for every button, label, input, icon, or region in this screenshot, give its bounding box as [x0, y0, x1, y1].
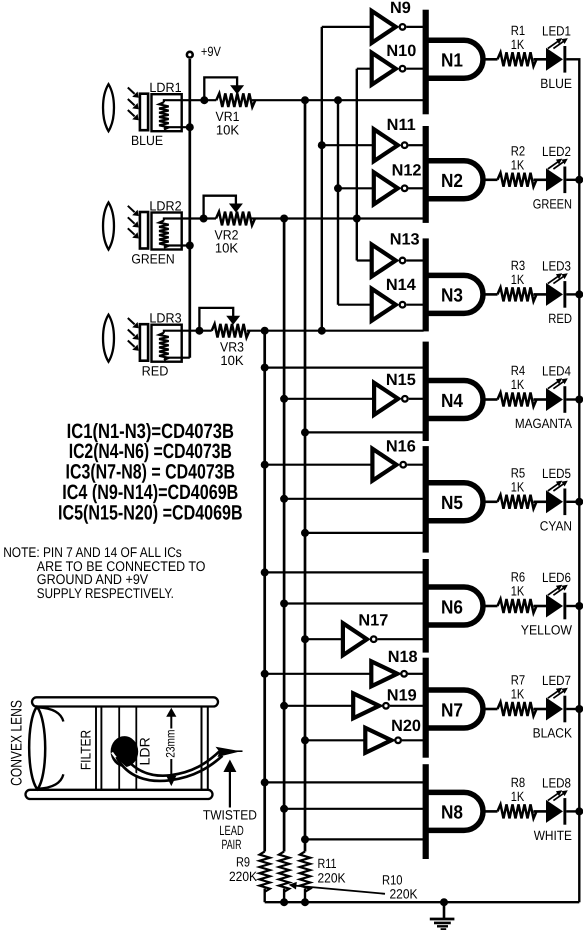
resistor R5 1K	[498, 495, 537, 509]
svg-text:N13: N13	[390, 231, 420, 249]
inverter N19	[353, 693, 379, 718]
wire: R7 to LED7	[534, 708, 547, 711]
svg-text:N18: N18	[388, 648, 418, 666]
svg-text:R4: R4	[511, 363, 526, 378]
LED8	[546, 800, 563, 823]
wire: N10 output	[406, 68, 423, 70]
bus: NOT-RED feed (N9/N11)	[321, 27, 323, 331]
potentiometer VR2 10K	[216, 212, 255, 226]
wire: LED7 to right rail	[566, 708, 579, 710]
svg-text:1K: 1K	[511, 584, 525, 599]
wire: N4 input from BLUE bus	[305, 431, 424, 433]
wire: LED6 to right rail	[566, 605, 579, 607]
junction: N12 input on bus	[334, 184, 342, 192]
junction: N5 input from GREEN bus	[280, 495, 288, 503]
svg-text:N17: N17	[358, 612, 388, 630]
bus: RED sense (VR3) vertical	[263, 331, 266, 852]
wire: LED4 to right rail	[566, 398, 579, 400]
wire: N6 output to R6	[483, 605, 498, 608]
junction: N18 input on bus	[261, 670, 269, 678]
inverter N14	[372, 289, 396, 321]
lens 1	[103, 84, 114, 131]
cable tip	[216, 747, 241, 757]
VR3 wiper arrowhead	[226, 316, 240, 325]
wire: R2 to LED2	[534, 179, 547, 182]
tube right end cap	[201, 707, 203, 790]
ground	[443, 902, 446, 919]
AND gate N3 input bar	[423, 238, 429, 331]
junction: VR3 loop	[195, 327, 203, 335]
svg-text:1K: 1K	[511, 789, 525, 804]
VR1 wiper loop	[204, 77, 237, 100]
svg-text:R3: R3	[511, 258, 525, 273]
svg-text:1K: 1K	[511, 479, 525, 494]
LDR2 element	[159, 221, 169, 248]
wire: N4 input from RED bus	[265, 367, 424, 369]
junction: VR3 wire / N9-N11 bus	[318, 327, 326, 335]
bus: BLUE sense (VR1) vertical	[304, 100, 307, 851]
svg-text:N10: N10	[386, 42, 416, 60]
lens bottom-right arc	[38, 774, 63, 789]
junction: LED3/right rail	[575, 290, 583, 298]
svg-text:220K: 220K	[229, 869, 257, 884]
junction: LED2/right rail	[575, 176, 583, 184]
wire: VR3 to N3 gate	[247, 330, 424, 332]
twisted-pair pointer arrow	[229, 772, 231, 808]
junction: LDR1 return on +9V rail	[186, 123, 194, 131]
wire: LED5 to right rail	[566, 501, 579, 503]
wire: N13 output	[406, 259, 423, 261]
wire: N2 output to R2	[483, 179, 498, 182]
LED6	[546, 595, 563, 618]
resistor R6 1K	[498, 599, 537, 613]
AND gate N1 input bar	[423, 10, 429, 115]
junction: LED7/right rail	[575, 705, 583, 713]
junction: VR2 loop	[200, 215, 208, 223]
wire: LED1 to right rail corner	[566, 58, 580, 60]
svg-text:CYAN: CYAN	[540, 518, 572, 533]
wire: LDR3 top lead	[164, 331, 212, 333]
AND gate N5 input bar	[423, 446, 429, 552]
svg-text:FILTER: FILTER	[78, 730, 94, 770]
resistor R11 220K	[300, 852, 310, 892]
junction: VR2 wire / GREEN bus	[280, 215, 288, 223]
svg-text:23mm: 23mm	[163, 730, 177, 758]
junction: VR3 wire / RED bus	[261, 327, 269, 335]
svg-text:LED6: LED6	[542, 570, 571, 585]
AND gate N8 body	[427, 792, 483, 830]
wire: R9 to ground rail	[264, 889, 266, 903]
wire: N16 input	[265, 464, 375, 466]
light arrows into LDR3	[128, 318, 135, 324]
wire: bottom ground rail	[265, 901, 580, 903]
svg-text:N8: N8	[441, 803, 463, 824]
svg-text:LED7: LED7	[542, 673, 571, 688]
svg-text:N4: N4	[441, 391, 463, 412]
junction: VR1 wire / BLUE bus	[301, 96, 309, 104]
wire: N20 output	[402, 739, 424, 741]
wire: N17 input	[305, 638, 345, 640]
junction: N8 input from RED bus	[261, 778, 269, 786]
junction: N4 input from BLUE bus	[301, 428, 309, 436]
svg-text:RED: RED	[548, 311, 572, 326]
wire: N16 output	[407, 464, 424, 466]
LDR body	[111, 736, 139, 767]
AND gate N2 body	[427, 161, 483, 199]
svg-text:LDR2: LDR2	[149, 199, 181, 214]
wire: N19 input	[284, 705, 355, 707]
wire: N8 input from BLUE bus	[305, 838, 424, 840]
LDR2 box	[152, 213, 182, 250]
wire: N18 output	[408, 673, 424, 675]
svg-text:10K: 10K	[215, 241, 238, 256]
junction: LDR2 return on +9V rail	[186, 242, 194, 250]
svg-text:N1: N1	[441, 51, 463, 72]
wire: N15 input	[284, 398, 376, 400]
wire: N14 output	[406, 304, 423, 306]
wire: N12 input	[338, 187, 376, 189]
LED2	[546, 168, 563, 191]
svg-text:LED3: LED3	[542, 258, 571, 273]
svg-text:LED4: LED4	[542, 364, 571, 379]
VR1 wiper arrowhead	[230, 85, 244, 94]
LDR1 element	[159, 102, 169, 129]
VR2 wiper loop	[204, 196, 236, 219]
inverter N11	[374, 129, 398, 161]
wire: R10 to ground rail	[283, 889, 285, 903]
filter plate 2	[140, 212, 148, 249]
svg-text:BLACK: BLACK	[533, 726, 572, 741]
junction: R11 / ground rail	[301, 898, 309, 906]
junction: VR1 loop	[200, 96, 208, 104]
svg-text:R2: R2	[511, 143, 525, 158]
svg-text:WHITE: WHITE	[534, 828, 572, 843]
light arrows into LDR2	[128, 206, 135, 212]
svg-text:MAGANTA: MAGANTA	[515, 416, 572, 431]
AND gate N4 body	[427, 381, 483, 419]
LDR3 element	[159, 333, 169, 360]
svg-text:R6: R6	[511, 570, 525, 585]
potentiometer VR3 10K	[212, 324, 250, 338]
svg-text:N5: N5	[441, 493, 463, 514]
wire: N14 input	[338, 304, 374, 306]
junction: N4 input from RED bus	[261, 364, 269, 372]
svg-text:R5: R5	[511, 465, 525, 480]
wire: LED8 to right rail	[566, 810, 579, 812]
svg-text:IC5(N15-N20) =CD4069B: IC5(N15-N20) =CD4069B	[58, 501, 243, 524]
wire: N19 output	[390, 705, 424, 707]
resistor R7 1K	[498, 702, 537, 716]
svg-text:1K: 1K	[511, 157, 525, 172]
wire: LDR3 bottom lead to +9V rail	[164, 357, 190, 359]
wire: N6 input from RED bus	[265, 571, 424, 573]
svg-text:R11: R11	[318, 856, 337, 871]
inverter N17	[343, 623, 367, 655]
junction: N11 input on bus	[318, 141, 326, 149]
VR2 wiper arrowhead	[229, 204, 243, 213]
svg-text:RED: RED	[142, 364, 169, 379]
svg-text:N12: N12	[392, 161, 422, 179]
wire: N9 input	[322, 26, 374, 28]
bus: GREEN sense (VR2) vertical	[283, 219, 286, 852]
svg-text:10K: 10K	[216, 122, 239, 137]
wire: N11 output	[409, 144, 424, 146]
lens top-right arc	[38, 707, 63, 721]
LED3	[546, 283, 563, 306]
svg-text:GREEN: GREEN	[131, 252, 174, 267]
inverter N16	[372, 449, 396, 481]
svg-text:PAIR: PAIR	[222, 837, 242, 852]
junction: ground tap	[440, 898, 448, 906]
inverter N12	[374, 172, 398, 204]
inverter N10	[372, 53, 396, 85]
svg-text:N19: N19	[387, 687, 417, 705]
junction: LED4/right rail	[575, 396, 583, 404]
svg-text:N11: N11	[387, 116, 416, 134]
wire: right LED return rail	[578, 59, 580, 902]
junction: N20 input on bus	[301, 736, 309, 744]
wire: N13 input	[357, 259, 374, 261]
inverter N9	[372, 11, 396, 43]
svg-text:N6: N6	[441, 597, 463, 618]
wire: N5 input from BLUE bus	[305, 532, 424, 534]
wire: N5 output to R5	[483, 500, 498, 503]
svg-text:LED5: LED5	[542, 466, 571, 481]
svg-text:R9: R9	[236, 855, 250, 870]
svg-text:N3: N3	[441, 286, 463, 307]
junction: LED8/right rail	[575, 807, 583, 815]
svg-text:R10: R10	[382, 873, 403, 888]
junction: VR2 wire / N10-N13 bus	[353, 215, 361, 223]
LED7	[546, 698, 563, 721]
svg-text:LEAD: LEAD	[219, 823, 244, 838]
AND gate N6 body	[427, 587, 483, 625]
svg-text:TWISTED: TWISTED	[203, 808, 257, 823]
svg-text:1K: 1K	[511, 377, 525, 392]
wire: N1 output to R1	[483, 58, 498, 61]
bus: NOT-BLUE feed (N12/N14)	[337, 100, 339, 305]
LDR mount plates	[118, 706, 120, 789]
potentiometer VR1 10K	[216, 93, 255, 107]
svg-text:N16: N16	[386, 437, 416, 455]
junction: N16 input on bus	[261, 461, 269, 469]
wire: N11 input	[322, 144, 376, 146]
wire: N8 output to R8	[483, 810, 498, 813]
svg-text:1K: 1K	[511, 37, 525, 52]
junction: N8 input from GREEN bus	[280, 805, 288, 813]
svg-text:LED2: LED2	[542, 144, 571, 159]
svg-text:BLUE: BLUE	[540, 76, 572, 91]
R10 pointer arrow	[295, 886, 385, 894]
inverter N15	[374, 383, 398, 415]
svg-text:GREEN: GREEN	[533, 196, 572, 211]
junction: N17 input on bus	[301, 635, 309, 643]
svg-text:220K: 220K	[390, 887, 418, 902]
wire: N4 output to R4	[483, 398, 498, 401]
inverter N13	[372, 245, 396, 277]
resistor R10 220K	[279, 852, 289, 892]
junction: LED6/right rail	[575, 602, 583, 610]
svg-text:R7: R7	[511, 673, 525, 688]
svg-text:SUPPLY RESPECTIVELY.: SUPPLY RESPECTIVELY.	[37, 585, 174, 601]
svg-text:LDR3: LDR3	[149, 311, 181, 326]
resistor R9 220K	[260, 852, 270, 892]
junction: N6 input from RED bus	[261, 568, 269, 576]
resistor R8 1K	[498, 804, 537, 818]
svg-text:N20: N20	[391, 717, 421, 735]
svg-text:10K: 10K	[220, 353, 243, 368]
resistor R4 1K	[498, 393, 537, 407]
AND gate N8 input bar	[423, 764, 429, 859]
AND gate N1 body	[427, 40, 483, 78]
wire: N18 input	[265, 673, 374, 675]
wire: R11 to ground rail	[304, 889, 306, 903]
junction: N8 input from BLUE bus	[301, 835, 309, 843]
wire: R1 to LED1	[534, 58, 547, 61]
wire: N7 output to R7	[483, 708, 498, 711]
wire: R8 to LED8	[534, 810, 547, 813]
tube top rail	[32, 697, 218, 706]
svg-text:N9: N9	[390, 0, 411, 17]
AND gate N7 body	[427, 690, 483, 728]
junction: N5 input from BLUE bus	[301, 529, 309, 537]
inverter N18	[371, 661, 397, 686]
lens 3	[103, 315, 114, 362]
twisted lead cable	[121, 751, 220, 776]
inverter N20	[365, 728, 391, 753]
wire: N5 input from GREEN bus	[284, 498, 424, 500]
wire: N3 output to R3	[483, 293, 498, 296]
svg-text:N14: N14	[386, 276, 416, 294]
junction: N15 input on bus	[280, 395, 288, 403]
AND gate N4 input bar	[423, 342, 429, 441]
svg-text:R8: R8	[511, 775, 525, 790]
filter plates	[95, 706, 97, 789]
resistor R2 1K	[498, 173, 537, 187]
svg-text:1K: 1K	[511, 272, 525, 287]
svg-text:N7: N7	[441, 700, 463, 721]
LED4	[546, 388, 563, 411]
svg-text:LDR1: LDR1	[149, 80, 181, 95]
AND gate N7 input bar	[423, 658, 429, 758]
LED5	[546, 490, 563, 513]
AND gate N2 input bar	[423, 126, 429, 223]
svg-text:LED8: LED8	[542, 775, 571, 790]
wire: R3 to LED3	[534, 293, 547, 296]
wire: R6 to LED6	[534, 605, 547, 608]
wire: N10 input	[357, 68, 374, 70]
wire: N9 output	[406, 26, 423, 28]
resistor R3 1K	[498, 287, 537, 301]
wire: VR1 to N1 gate	[252, 99, 424, 101]
svg-text:YELLOW: YELLOW	[521, 623, 573, 638]
AND gate N3 body	[427, 275, 483, 313]
bus: NOT-GREEN feed (N10/N13)	[356, 69, 358, 261]
AND gate N6 input bar	[423, 559, 429, 653]
svg-text:N2: N2	[441, 171, 463, 192]
junction: N19 input on bus	[280, 702, 288, 710]
svg-text:CONVEX LENS: CONVEX LENS	[9, 700, 26, 786]
svg-text:LED1: LED1	[542, 23, 571, 38]
LED1	[546, 48, 563, 71]
wire: N17 output	[378, 638, 424, 640]
resistor R1 1K	[498, 52, 537, 66]
junction: R10 / ground rail	[280, 898, 288, 906]
wire: N8 input from RED bus	[265, 781, 424, 783]
lens 2	[103, 203, 114, 250]
junction: LED5/right rail	[575, 498, 583, 506]
wire: R4 to LED4	[534, 398, 547, 401]
svg-text:N15: N15	[386, 371, 416, 389]
wire: LDR1 top lead	[164, 100, 216, 102]
svg-text:R1: R1	[511, 23, 525, 38]
wire: LDR2 top lead	[164, 219, 216, 221]
VR3 wiper loop	[199, 308, 233, 331]
wire: LDR1 bottom lead to +9V rail	[164, 126, 190, 128]
LDR3 box	[152, 325, 182, 362]
svg-text:LDR: LDR	[137, 737, 153, 765]
tube bottom rail	[26, 790, 213, 799]
wire: VR2 to N2 gate	[252, 217, 424, 219]
svg-text:+9V: +9V	[201, 44, 221, 59]
AND gate N5 body	[427, 483, 483, 521]
+9V supply rail	[188, 59, 191, 358]
wire: LED2 to right rail	[566, 179, 579, 181]
filter plate 3	[140, 324, 148, 361]
wire: N20 input	[305, 739, 367, 741]
filter plate 1	[140, 94, 148, 131]
wire: N6 input from GREEN bus	[284, 602, 424, 604]
LDR1 box	[152, 94, 182, 131]
svg-text:1K: 1K	[511, 687, 525, 702]
light arrows into LDR1	[128, 88, 135, 94]
wire: LED3 to right rail	[566, 293, 579, 295]
wire: N8 input from GREEN bus	[284, 808, 424, 810]
svg-text:BLUE: BLUE	[131, 133, 163, 148]
+9V terminal	[187, 52, 193, 58]
wire: LDR2 bottom lead to +9V rail	[164, 244, 190, 246]
wire: N12 output	[409, 187, 424, 189]
wire: N15 output	[409, 398, 424, 400]
convex lens element	[29, 707, 45, 790]
junction: N6 input from GREEN bus	[280, 600, 288, 608]
wire: R5 to LED5	[534, 500, 547, 503]
23mm dimension arrow	[170, 715, 172, 729]
junction: VR1 wire / N12-N14 bus	[334, 96, 342, 104]
svg-text:220K: 220K	[318, 870, 346, 885]
